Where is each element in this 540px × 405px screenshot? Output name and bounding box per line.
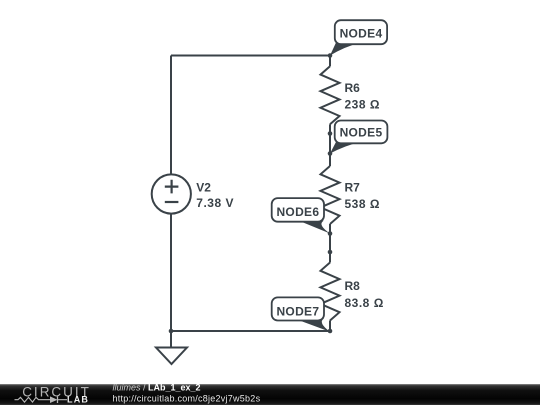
footer logo CIRCUIT LAB — [15, 385, 91, 405]
svg-text:7.38 V: 7.38 V — [196, 196, 234, 210]
resistor R8 — [321, 263, 340, 321]
wire lead below R8 — [329, 321, 331, 332]
junction at top-right corner — [328, 53, 333, 58]
junction above R7 — [328, 151, 333, 156]
node NODE7 — [272, 297, 330, 331]
wire left lower segment — [170, 214, 172, 332]
wire right lead into R6 — [329, 56, 331, 67]
node NODE5 — [330, 121, 387, 154]
resistor R7 — [321, 166, 340, 224]
footer bar — [0, 384, 540, 405]
value label R8 / 83.8 Ω — [345, 279, 384, 310]
svg-text:R7: R7 — [345, 181, 361, 195]
node NODE4 — [330, 20, 387, 55]
svg-text:538 Ω: 538 Ω — [345, 197, 380, 211]
svg-text:238 Ω: 238 Ω — [345, 97, 380, 111]
svg-text:http://circuitlab.com/c8je2vj7: http://circuitlab.com/c8je2vj7w5b2s — [113, 393, 261, 403]
value label R6 / 238 Ω — [345, 81, 380, 111]
svg-text:83.8 Ω: 83.8 Ω — [345, 296, 384, 310]
voltage source V2 — [152, 174, 191, 213]
junction above R8 — [328, 250, 333, 255]
svg-text:lluimes / LAb_1_ex_2: lluimes / LAb_1_ex_2 — [113, 383, 201, 393]
junction below R6 — [328, 131, 333, 136]
svg-text:NODE4: NODE4 — [340, 27, 383, 41]
junction at ground node — [169, 329, 174, 334]
svg-text:R8: R8 — [345, 279, 361, 293]
resistor R6 — [321, 66, 340, 124]
value label V2 / 7.38 V — [196, 180, 234, 210]
svg-text:V2: V2 — [196, 180, 211, 194]
wire between R7 and R8 — [329, 224, 331, 263]
wire top rail — [171, 55, 330, 57]
svg-text:R6: R6 — [345, 81, 361, 95]
wire left upper segment — [170, 56, 172, 175]
svg-text:NODE6: NODE6 — [276, 205, 319, 219]
svg-text:NODE5: NODE5 — [340, 125, 383, 139]
node NODE6 — [272, 198, 330, 233]
wire bottom rail — [171, 330, 330, 332]
junction at bottom-right corner — [328, 329, 333, 334]
svg-text:LAB: LAB — [67, 395, 89, 405]
wire between R6 and R7 — [329, 124, 331, 166]
junction below R7 — [328, 231, 333, 236]
ground — [156, 331, 187, 364]
svg-text:NODE7: NODE7 — [276, 305, 319, 319]
value label R7 / 538 Ω — [345, 181, 380, 212]
